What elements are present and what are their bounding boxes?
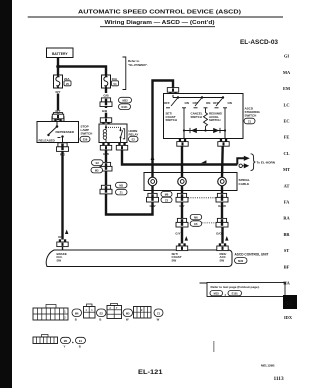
connector id ovals — [190, 214, 202, 226]
svg-text:BR: BR — [283, 232, 290, 237]
connector M-Z inline (G/W) — [100, 185, 112, 194]
arrow up R/G — [65, 230, 68, 235]
svg-text:E2: E2 — [96, 161, 100, 165]
connector under switch left — [177, 139, 188, 146]
spiral ring A — [148, 177, 157, 186]
svg-text:ON: ON — [185, 101, 189, 105]
connector E (R/Y) — [52, 113, 64, 122]
pin label brake — [57, 252, 67, 263]
svg-text:BF: BF — [284, 264, 290, 269]
svg-text:RA: RA — [283, 216, 290, 221]
connector spiral A — [147, 193, 159, 202]
node cancel junction — [204, 129, 206, 131]
connector id oval E — [61, 337, 71, 348]
label 10A — [112, 77, 119, 86]
svg-text:EM: EM — [283, 86, 291, 91]
connector resume into unit — [217, 243, 228, 250]
svg-text:M30: M30 — [238, 259, 244, 263]
label ascd steering switch — [244, 107, 261, 124]
connector under switch right — [218, 139, 229, 146]
connector id oval D — [154, 309, 163, 321]
arrow left on horn line — [201, 160, 207, 163]
svg-text:B: B — [79, 345, 81, 349]
svg-text:ON: ON — [206, 101, 210, 105]
resistor R1 — [204, 108, 208, 131]
svg-text:SWITCH: SWITCH — [166, 118, 177, 122]
svg-text:E101: E101 — [121, 105, 128, 109]
svg-text:SW: SW — [220, 258, 225, 262]
label spiral cable — [239, 178, 250, 186]
node battery junction — [56, 65, 60, 69]
connector face B — [84, 304, 96, 318]
wire ring A down — [151, 186, 153, 194]
svg-text:HA: HA — [283, 281, 290, 286]
brace to EL-HORN — [251, 154, 256, 171]
svg-text:CABLE: CABLE — [239, 182, 250, 186]
svg-text:R/G: R/G — [58, 235, 64, 239]
diode bus — [184, 130, 225, 132]
wire to fuse F1 — [57, 67, 59, 76]
svg-text:LC: LC — [283, 102, 289, 107]
note refer to EL-POWER — [123, 57, 149, 90]
header title — [28, 10, 283, 17]
svg-text:G/B: G/B — [103, 94, 109, 98]
wire resume contact down — [224, 108, 226, 131]
note box refer to last page — [200, 283, 286, 297]
svg-text:Refer to last page (Foldout pa: Refer to last page (Foldout page). — [211, 285, 260, 289]
svg-text:EL-121: EL-121 — [138, 369, 163, 376]
svg-text:E38: E38 — [83, 138, 88, 142]
connector set into unit — [176, 243, 187, 250]
arrow up on feed — [151, 155, 155, 160]
connector E-M inline (G/W) — [100, 162, 112, 171]
svg-text:IDX: IDX — [284, 315, 293, 320]
svg-text:DEPRESSED: DEPRESSED — [56, 130, 75, 134]
connector spiral C — [216, 193, 228, 202]
svg-text:BATTERY: BATTERY — [52, 52, 68, 56]
svg-text:1113: 1113 — [274, 376, 284, 382]
dashed connector link — [188, 197, 216, 199]
svg-text:OFF: OFF — [164, 101, 170, 105]
wire R/Y fuse to connector — [57, 94, 59, 111]
svg-text:FA: FA — [284, 200, 290, 205]
svg-text:RELEASED: RELEASED — [39, 139, 56, 143]
connector id ovals — [91, 160, 103, 173]
dashed connector link row2 — [202, 222, 216, 224]
switch cancel — [191, 96, 211, 119]
wire C down — [221, 203, 223, 219]
connector into ascd steering switch — [167, 88, 178, 95]
svg-text:Wiring Diagram — ASCD — (Cont’: Wiring Diagram — ASCD — (Cont’d) — [105, 20, 215, 26]
wire ascd steering feed — [153, 81, 174, 178]
svg-text:ST: ST — [284, 248, 289, 253]
horn relay connector top — [100, 118, 111, 125]
switch resume/accel — [209, 96, 232, 122]
wire B to control unit — [181, 228, 183, 244]
arrow up C — [225, 236, 228, 241]
svg-text:SWITCH: SWITCH — [209, 118, 220, 122]
print mark tick — [213, 341, 214, 352]
connector spiral B — [176, 193, 188, 202]
wire resume out — [224, 131, 226, 139]
connector id oval F — [76, 337, 86, 348]
battery B1 — [47, 48, 74, 58]
connector C row2 — [216, 218, 228, 227]
svg-text:B: B — [99, 317, 101, 321]
connector face D — [134, 307, 152, 319]
wire battery down — [57, 58, 59, 67]
connector below stop lamp switch — [57, 143, 69, 152]
header subtitle — [100, 20, 215, 27]
wire set out — [183, 131, 185, 139]
svg-text:SWITCH: SWITCH — [81, 131, 93, 135]
svg-text:B: B — [75, 317, 77, 321]
arrow up B — [185, 236, 188, 241]
svg-text:RELAY: RELAY — [129, 132, 139, 136]
spiral ring C — [218, 177, 227, 186]
stop lamp switch box — [37, 122, 79, 143]
wire B down — [181, 203, 183, 219]
svg-text:SW: SW — [172, 258, 177, 262]
node set junction — [183, 129, 185, 131]
connector face A — [33, 305, 68, 321]
svg-text:SWITCH: SWITCH — [245, 114, 257, 118]
arrow to EL-HORN — [244, 156, 250, 161]
spiral ring B — [178, 177, 187, 186]
comma — [72, 342, 73, 343]
wire G/B fuse to connector — [105, 88, 107, 93]
wire ring B down — [181, 186, 183, 194]
svg-text:M6: M6 — [165, 193, 169, 197]
wire G/W to spiral cable — [106, 194, 153, 215]
fuse F2 10A — [102, 75, 111, 88]
label ascd control unit — [235, 253, 269, 264]
node resume junction — [224, 129, 226, 131]
connector id ovals — [161, 191, 172, 202]
svg-text:AT: AT — [284, 183, 290, 188]
connector face E — [33, 335, 58, 344]
svg-text:ON: ON — [228, 101, 232, 105]
svg-text:E101: E101 — [232, 292, 239, 296]
svg-text:M1: M1 — [64, 339, 68, 343]
svg-text:GI: GI — [284, 54, 289, 59]
svg-text:M33: M33 — [122, 99, 128, 103]
horn relay box — [99, 124, 127, 143]
spiral cable box — [144, 173, 237, 191]
svg-text:G/W: G/W — [150, 204, 156, 208]
svg-text:“EL-POWER”.: “EL-POWER”. — [128, 63, 148, 67]
connector id ovals — [119, 97, 132, 109]
svg-text:E6: E6 — [194, 222, 198, 226]
connector id oval A — [72, 309, 82, 321]
svg-text:MEL129B: MEL129B — [261, 363, 275, 367]
svg-text:MA: MA — [283, 70, 291, 75]
switch set/coast — [164, 96, 189, 122]
svg-text:EL-ASCD-03: EL-ASCD-03 — [240, 40, 279, 46]
svg-text:M3: M3 — [119, 184, 123, 188]
connector id ovals — [116, 182, 128, 195]
wire G horn relay to EL-HORN — [122, 150, 237, 165]
svg-text:SW: SW — [57, 258, 62, 262]
connector id oval B — [97, 309, 107, 321]
pin label set/coast — [172, 252, 182, 263]
pin label res/acc — [220, 252, 227, 263]
wire ring C down — [221, 186, 223, 194]
connector face C — [107, 304, 122, 319]
svg-text:G/B: G/B — [102, 109, 108, 113]
wire C to control unit — [221, 228, 223, 244]
svg-text:FE: FE — [284, 135, 290, 140]
wire stub — [62, 247, 64, 250]
svg-text:E2: E2 — [100, 311, 104, 315]
stop lamp switch contacts — [47, 122, 63, 143]
svg-text:CL: CL — [283, 151, 289, 156]
wire G/W down — [105, 150, 107, 163]
svg-text:R/Y: R/Y — [55, 90, 60, 94]
diode D2 — [213, 128, 220, 133]
svg-text:M3: M3 — [95, 169, 99, 173]
wire battery bus — [58, 67, 106, 76]
svg-text:E1: E1 — [79, 339, 83, 343]
svg-text:M6: M6 — [75, 311, 79, 315]
connector M-E (G/B) — [100, 98, 112, 107]
wire step to EL-HORN arrow — [237, 158, 244, 164]
ring stub to EL-HORN — [239, 163, 249, 168]
wire set contact down — [183, 108, 185, 131]
svg-text:OFF: OFF — [193, 101, 199, 105]
connector id oval C — [123, 309, 133, 321]
svg-text:M3: M3 — [126, 311, 130, 315]
svg-text:AUTOMATIC SPEED CONTROL DEVICE: AUTOMATIC SPEED CONTROL DEVICE (ASCD) — [78, 10, 241, 16]
page binding strip — [0, 0, 12, 388]
margin label EL highlighted — [283, 295, 297, 309]
svg-text:MT: MT — [283, 167, 290, 172]
svg-text:EL: EL — [287, 301, 294, 307]
connector into control unit (brake) — [57, 239, 68, 246]
svg-text:ASCD CONTROL UNIT: ASCD CONTROL UNIT — [235, 253, 269, 257]
svg-text:E2: E2 — [132, 138, 136, 142]
diode D1 — [190, 128, 197, 133]
svg-text:W: W — [126, 317, 129, 321]
svg-text:W: W — [157, 317, 160, 321]
svg-text:OFF: OFF — [213, 101, 219, 105]
connector horn relay out right — [116, 143, 127, 150]
label 20A — [64, 77, 71, 86]
svg-text:To EL-HORN: To EL-HORN — [257, 161, 276, 165]
ascd steering switch box — [164, 94, 244, 139]
bus wire in switch — [173, 95, 223, 98]
svg-text:M6: M6 — [194, 216, 198, 220]
label stop lamp switch — [80, 124, 92, 142]
wire G/W — [105, 171, 107, 185]
wire to spiral cable right — [221, 146, 224, 177]
wire G/B to horn relay — [105, 107, 107, 109]
svg-text:M33: M33 — [214, 292, 220, 296]
svg-text:EC: EC — [283, 119, 289, 124]
ascd control unit box — [46, 250, 232, 267]
svg-text:SWITCH: SWITCH — [191, 115, 202, 119]
connector into stop lamp switch — [52, 114, 63, 121]
wire to spiral cable left — [181, 146, 183, 177]
connector B row2 — [176, 218, 188, 227]
svg-text:G/Y: G/Y — [175, 231, 180, 235]
connector horn relay out left — [100, 143, 111, 150]
fuse F1 20A — [54, 75, 63, 88]
svg-text:Y: Y — [64, 345, 66, 349]
wire R/G long — [61, 151, 63, 239]
label horn relay — [129, 129, 139, 142]
